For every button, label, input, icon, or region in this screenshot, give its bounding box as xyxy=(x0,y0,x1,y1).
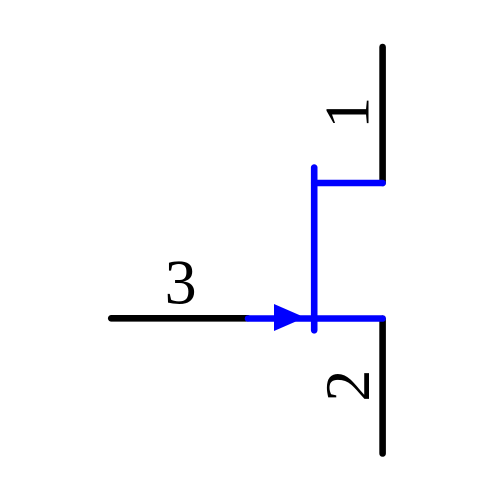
svg-text:2: 2 xyxy=(312,370,383,402)
pin 1 (drain) xyxy=(379,47,386,183)
pin 2 (source) xyxy=(379,319,386,454)
wire drain tap xyxy=(314,180,382,187)
transistor Q1 channel xyxy=(311,168,318,331)
svg-text:3: 3 xyxy=(165,247,197,318)
svg-text:1: 1 xyxy=(311,97,382,129)
wire source/gate bar xyxy=(248,315,383,322)
gate arrow xyxy=(274,304,305,331)
pin 3 (gate) xyxy=(111,315,248,322)
